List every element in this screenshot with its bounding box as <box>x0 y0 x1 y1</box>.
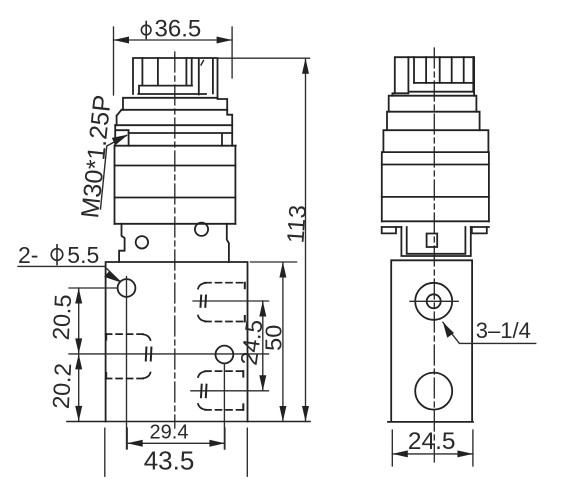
dim 29.4 line <box>127 442 225 444</box>
hidden stadium lower right <box>198 371 243 410</box>
dim 24.5 side arrows <box>392 450 473 457</box>
port line 2 front <box>191 390 269 392</box>
block front <box>106 262 248 422</box>
knob front <box>133 58 218 98</box>
dim 50 arrows <box>279 262 286 422</box>
flange circle right front <box>195 223 208 236</box>
hole horizontal extension 20.5 <box>69 287 118 289</box>
port line 1 front <box>193 300 269 302</box>
svg-text:M30*1.25P: M30*1.25P <box>76 94 117 220</box>
mounting hole circle front <box>118 279 136 297</box>
svg-text:20.5: 20.5 <box>48 294 76 341</box>
svg-text:29.4: 29.4 <box>150 422 189 444</box>
hidden stadium left <box>106 334 151 378</box>
flange circle left front <box>136 236 148 248</box>
dim 20.5 arrows <box>75 288 82 421</box>
dim 20.5 / 20.2 line <box>78 288 80 420</box>
svg-text:113: 113 <box>282 204 312 244</box>
flange front <box>119 224 229 262</box>
break ticks port2 <box>201 385 207 398</box>
dim 113 top extension <box>218 57 310 59</box>
dim 113 arrows <box>302 58 309 421</box>
port 2 side <box>415 373 452 410</box>
dim 29.4 extensions <box>127 428 225 449</box>
band3 front <box>115 110 232 146</box>
body front <box>115 146 236 224</box>
port 1 center tick <box>410 300 458 302</box>
svg-text:20.2: 20.2 <box>48 362 76 409</box>
port 1 inner <box>427 294 441 308</box>
centerline break ticks <box>146 348 152 361</box>
svg-text:2-: 2- <box>18 242 38 268</box>
horizontal centerline block <box>69 353 269 355</box>
dim 50 line <box>282 262 284 422</box>
body side <box>382 152 489 221</box>
dim phi36.5 line <box>114 39 233 41</box>
band3 side <box>387 112 480 131</box>
svg-text:5.5: 5.5 <box>67 242 99 268</box>
knob side <box>392 57 474 95</box>
svg-text:36.5: 36.5 <box>155 16 202 43</box>
dim 113 line <box>305 58 307 421</box>
hole vertical extension <box>126 277 128 450</box>
hidden stadium upper right <box>198 283 245 322</box>
break ticks port1 <box>201 296 207 307</box>
port 1 side <box>415 283 452 320</box>
dim 24.5 side line <box>392 453 473 455</box>
band2 front <box>123 98 227 110</box>
dim phi36.5 extension lines <box>114 27 233 95</box>
small circle vertical extension <box>223 363 225 449</box>
dim phi36.5 arrows <box>114 37 233 44</box>
dim 24.5 front arrows <box>259 301 266 391</box>
small circle front (port center) <box>216 346 234 364</box>
dim 29.4 arrows <box>127 440 225 447</box>
label M30*1.25P leader <box>101 136 127 210</box>
svg-text:24.5: 24.5 <box>408 428 456 455</box>
label 2-phi5.5 leader <box>18 266 120 281</box>
band4 side (widest) <box>383 130 488 152</box>
svg-text:43.5: 43.5 <box>144 446 195 476</box>
thread band front (M30) <box>115 125 236 146</box>
svg-text:3–1/4: 3–1/4 <box>476 318 531 343</box>
front view centerline <box>174 52 176 428</box>
bottom long line <box>67 421 310 423</box>
label 3-1/4 leader <box>443 322 536 343</box>
side view centerline <box>433 48 435 462</box>
dim 50 top extension <box>251 261 297 263</box>
dim 43.5 extensions <box>105 428 248 476</box>
block side <box>388 260 473 422</box>
dim 24.5 front line <box>262 301 264 391</box>
band2 side <box>389 96 477 112</box>
dim phi36.5 text <box>141 22 151 39</box>
dim 24.5 side extensions <box>392 430 473 466</box>
flange side <box>382 227 489 256</box>
